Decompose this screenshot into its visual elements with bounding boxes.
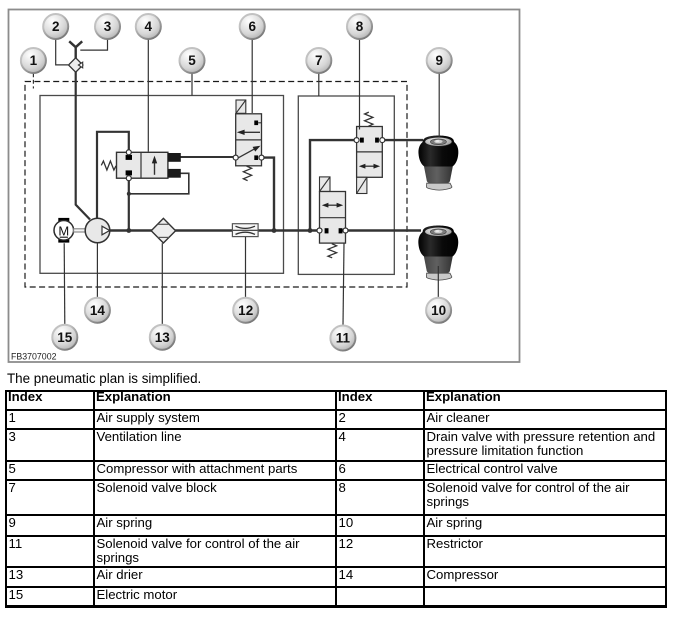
leader 15 — [63, 243, 66, 324]
wire drain valve bottom port down to main line — [128, 180, 130, 231]
wire main supply line — [108, 229, 318, 231]
leader 12 — [245, 237, 247, 298]
box node 7 solenoid valve block — [298, 96, 394, 274]
wire branch up to valve 8 — [310, 140, 355, 230]
control valve U6 — [233, 100, 264, 181]
wire drain valve pilot loop — [130, 173, 189, 194]
junction valve 8 branch at main line — [308, 228, 313, 233]
leader 5 — [191, 73, 193, 95]
outer frame — [9, 10, 520, 363]
solenoid valve 11 — [317, 177, 348, 258]
wire valve 11 to air spring 10 — [348, 229, 422, 231]
compressor 14 — [85, 218, 110, 243]
leader 10 — [437, 266, 439, 298]
leader 7 — [318, 73, 320, 96]
svg-text:1: 1 — [30, 53, 38, 68]
callout 1 — [21, 48, 46, 73]
svg-text:8: 8 — [356, 19, 364, 34]
svg-text:14: 14 — [90, 303, 106, 318]
svg-text:10: 10 — [431, 303, 446, 318]
leader 14 — [96, 243, 98, 298]
svg-text:9: 9 — [435, 53, 443, 68]
electric motor 15 — [54, 218, 85, 243]
air drier 13 — [151, 218, 175, 243]
svg-text:3: 3 — [104, 19, 112, 34]
air spring 10 — [418, 226, 458, 281]
callout 13 — [150, 325, 175, 350]
callout 6 — [240, 14, 265, 39]
air spring 9 — [418, 136, 458, 191]
leader 13 — [161, 243, 163, 324]
svg-text:11: 11 — [336, 331, 351, 346]
air cleaner 2 — [69, 58, 83, 72]
leader 6 — [251, 39, 253, 113]
callout 4 — [136, 14, 161, 39]
svg-text:2: 2 — [52, 19, 60, 34]
callout 12 — [233, 298, 258, 323]
callout 14 — [85, 298, 110, 323]
svg-text:12: 12 — [238, 303, 253, 318]
restrictor 12 — [232, 224, 258, 237]
junction drain valve pilot — [127, 192, 131, 196]
junction control valve output at main line — [272, 228, 277, 233]
leader 4 — [147, 39, 149, 152]
callout 11 — [330, 326, 355, 351]
leader 1 — [32, 73, 34, 88]
svg-text:FB3707002: FB3707002 — [11, 351, 57, 361]
svg-text:13: 13 — [155, 330, 171, 345]
callout 9 — [427, 48, 452, 73]
svg-text:4: 4 — [145, 19, 153, 34]
callout 10 — [426, 298, 451, 323]
svg-text:7: 7 — [315, 53, 323, 68]
wire drain valve pilot to control valve 6 — [180, 156, 234, 158]
ventilation line Y node 3 — [69, 41, 82, 58]
wire air cleaner down to compressor — [76, 71, 90, 220]
callout 3 — [95, 14, 120, 39]
callout 8 — [347, 14, 372, 39]
solenoid valve 8 — [354, 112, 385, 193]
leader 3 — [80, 39, 107, 50]
box node 5 compressor with attachment parts — [40, 96, 284, 274]
callout 2 — [43, 14, 68, 39]
leader 2 — [56, 39, 68, 65]
svg-text:15: 15 — [57, 330, 73, 345]
dashed box node 1 air supply system — [25, 82, 407, 288]
callout 5 — [180, 48, 205, 73]
svg-text:6: 6 — [248, 19, 256, 34]
svg-text:5: 5 — [188, 53, 196, 68]
drain valve 4 — [101, 150, 180, 181]
callout 15 — [52, 325, 77, 350]
junction drain valve to main line — [126, 228, 131, 233]
svg-text:M: M — [58, 223, 69, 238]
wire compressor to drain valve loop — [97, 132, 129, 219]
callout 7 — [306, 48, 331, 73]
leader 9 — [438, 73, 440, 137]
wire control valve 6 output down to main line — [264, 158, 274, 231]
wire valve 8 to air spring 9 — [385, 139, 424, 141]
leader 11 — [343, 244, 344, 326]
leader 8 — [359, 39, 361, 130]
